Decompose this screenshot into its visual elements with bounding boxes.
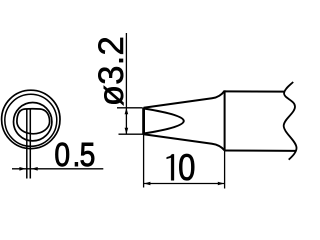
svg-text:0: 0 [178,148,195,189]
svg-text:ø3.2: ø3.2 [92,36,131,106]
svg-text:0.5: 0.5 [54,136,95,174]
